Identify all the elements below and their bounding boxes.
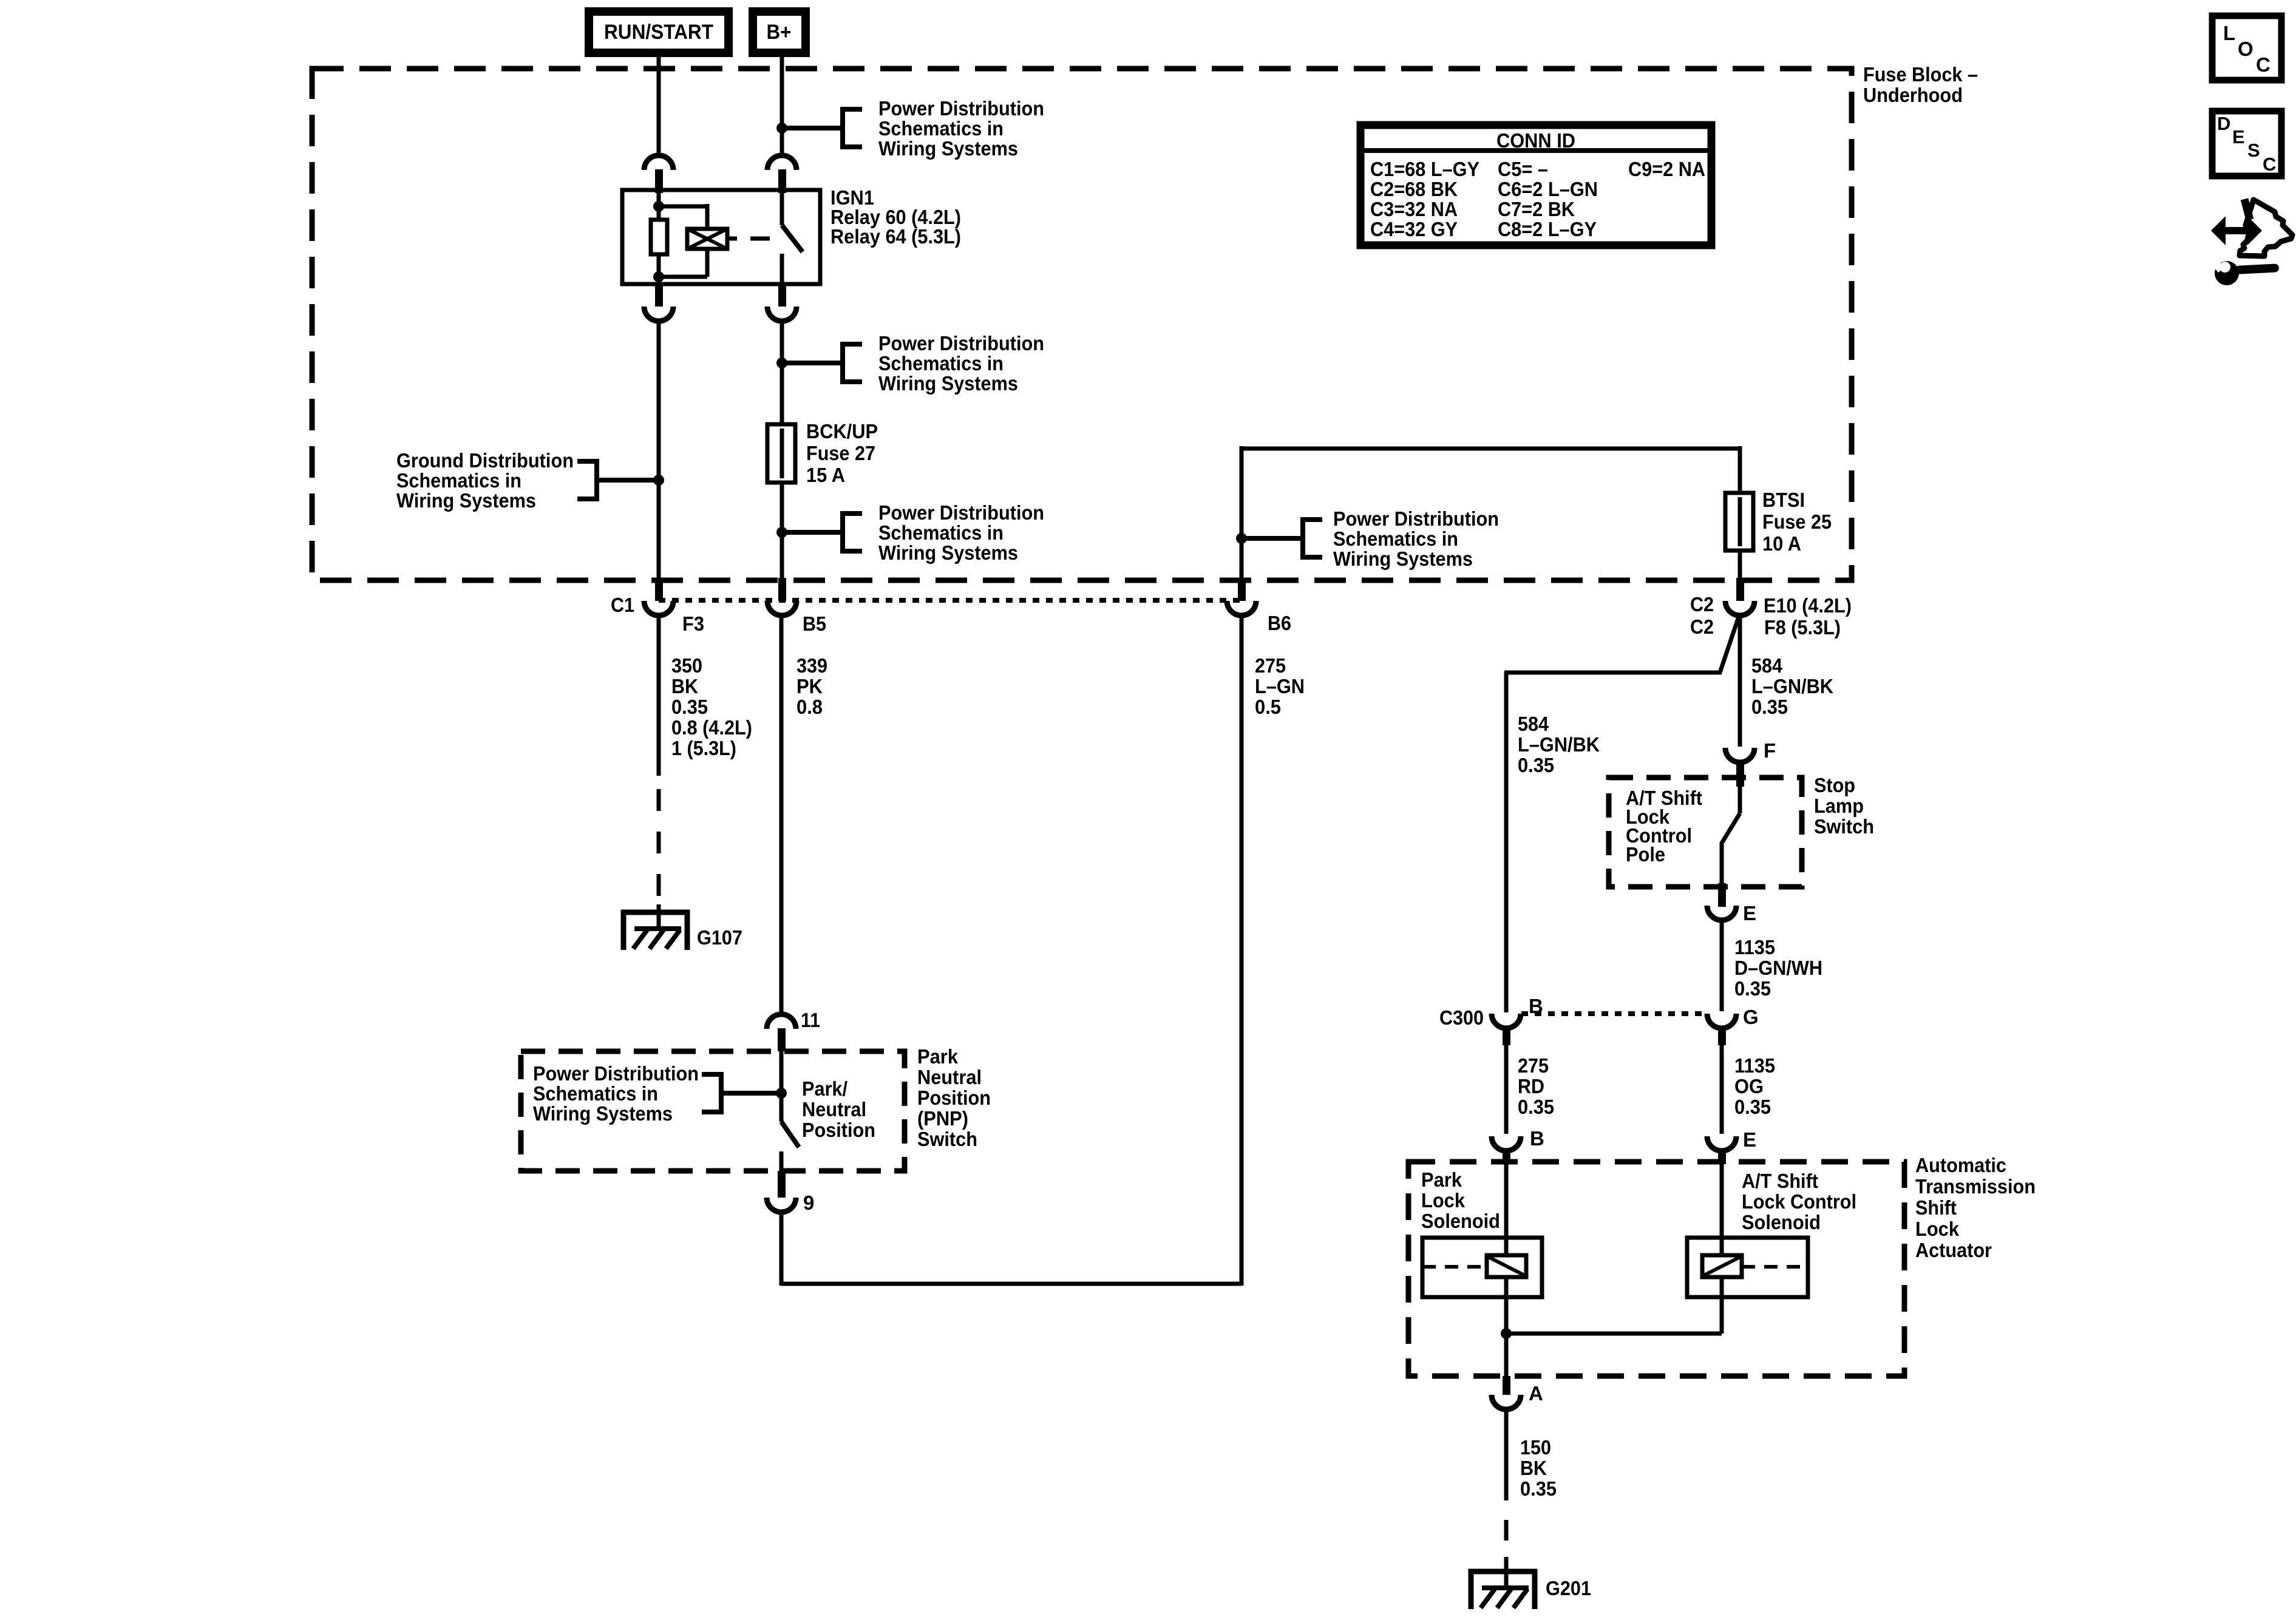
fuse BCK/UP Fuse 27 15A (767, 424, 795, 483)
svg-text:D–GN/WH: D–GN/WH (1734, 957, 1822, 979)
svg-text:B+: B+ (767, 21, 792, 44)
svg-text:G: G (1743, 1006, 1759, 1028)
svg-text:Fuse Block –: Fuse Block – (1863, 63, 1978, 86)
svg-text:C2=68 BK: C2=68 BK (1370, 178, 1458, 200)
junction ground distribution (653, 475, 664, 486)
svg-text:BK: BK (671, 675, 698, 697)
wire RUN/START to relay connector (657, 57, 661, 155)
svg-text:Schematics in: Schematics in (533, 1082, 658, 1105)
A/T solenoid dashed link (1742, 1265, 1808, 1269)
power feed box B+ (749, 7, 810, 57)
svg-text:C1: C1 (611, 594, 634, 616)
svg-text:Actuator: Actuator (1915, 1239, 1992, 1261)
connector out of relay (left) (655, 284, 663, 307)
connector B6 at fuse block (1238, 578, 1246, 601)
svg-text:L–GN/BK: L–GN/BK (1518, 733, 1600, 756)
label Power Distribution Schematics in Wiring Systems (B+ feed) (782, 126, 843, 131)
svg-text:275: 275 (1518, 1054, 1549, 1077)
wire B+ junction to relay connector (780, 128, 784, 155)
svg-text:C8=2 L–GY: C8=2 L–GY (1498, 218, 1597, 240)
icon hand with arrow and wrench (2240, 200, 2292, 256)
svg-text:S: S (2247, 140, 2260, 161)
svg-text:Schematics in: Schematics in (878, 521, 1004, 544)
svg-text:11: 11 (801, 1009, 820, 1031)
junction B6 power distribution (1236, 533, 1247, 544)
svg-text:Lamp: Lamp (1814, 795, 1864, 817)
wire 584 branch vertical to C300 (1504, 673, 1509, 1012)
svg-text:Lock: Lock (1915, 1218, 1960, 1240)
svg-text:Park: Park (1421, 1168, 1462, 1191)
svg-text:0.35: 0.35 (1518, 1096, 1554, 1118)
ground G107 (621, 910, 690, 915)
svg-text:F8 (5.3L): F8 (5.3L) (1764, 616, 1841, 639)
label Ground Distribution Schematics in Wiring Systems (597, 478, 659, 483)
wire fuse to lower junction (780, 483, 784, 532)
PNP switch arm (781, 1122, 799, 1147)
A/T shift lock control solenoid box (1687, 1238, 1808, 1297)
svg-text:F: F (1764, 739, 1776, 762)
svg-text:CONN ID: CONN ID (1496, 129, 1575, 152)
connector out of relay (right) (778, 284, 786, 307)
connector into relay (coil pin) (644, 155, 673, 170)
svg-text:G107: G107 (697, 926, 742, 949)
svg-text:Wiring Systems: Wiring Systems (878, 137, 1018, 160)
relay switch arm (782, 225, 803, 252)
wire B6 column vertical (275 L-GN) (1240, 615, 1244, 1286)
svg-text:Lock: Lock (1421, 1189, 1466, 1212)
svg-text:Power Distribution: Power Distribution (878, 97, 1044, 120)
connector C2 at fuse block (1736, 578, 1744, 601)
svg-text:C300: C300 (1439, 1006, 1484, 1029)
fuse BTSI Fuse 25 10A (1725, 493, 1753, 551)
park neutral position switch dashed box (521, 1051, 905, 1171)
icon LOC box (2212, 16, 2281, 80)
wire junction to fuse block boundary (B5) (780, 532, 784, 581)
PNP switch common wire (779, 1051, 784, 1122)
svg-text:C: C (2256, 53, 2271, 76)
svg-text:E10 (4.2L): E10 (4.2L) (1764, 594, 1852, 617)
wire pin 9 down (779, 1212, 784, 1286)
svg-text:E: E (1743, 902, 1756, 924)
wire park solenoid to junction (1504, 1276, 1509, 1334)
svg-text:Neutral: Neutral (917, 1066, 982, 1088)
svg-text:C1=68 L–GY: C1=68 L–GY (1370, 158, 1479, 180)
svg-text:Wiring Systems: Wiring Systems (396, 489, 536, 512)
svg-text:Automatic: Automatic (1915, 1154, 2006, 1176)
svg-text:0.8 (4.2L): 0.8 (4.2L) (671, 716, 752, 739)
svg-text:BCK/UP: BCK/UP (806, 420, 878, 442)
ground G201 (1469, 1569, 1537, 1575)
svg-text:Switch: Switch (917, 1128, 977, 1150)
svg-text:C7=2 BK: C7=2 BK (1498, 198, 1575, 220)
label Power Distribution Schematics in Wiring Systems (above fuse) (782, 361, 843, 365)
svg-text:584: 584 (1518, 713, 1549, 735)
svg-text:Power Distribution: Power Distribution (1333, 507, 1499, 530)
wire 150 BK (1504, 1409, 1509, 1500)
svg-text:RD: RD (1518, 1075, 1544, 1097)
park lock solenoid element (1487, 1255, 1526, 1277)
CONN ID table (1360, 125, 1711, 245)
svg-text:F3: F3 (682, 612, 704, 635)
svg-text:0.35: 0.35 (671, 696, 708, 718)
svg-text:584: 584 (1751, 654, 1783, 677)
svg-text:BK: BK (1520, 1457, 1547, 1479)
svg-text:C4=32 GY: C4=32 GY (1370, 218, 1458, 240)
junction B+ distribution (776, 123, 787, 134)
label Power Distribution Schematics in Wiring Systems (B6) (1241, 536, 1303, 541)
svg-text:L–GN: L–GN (1255, 675, 1305, 697)
label Power Distribution Schematics in Wiring Systems (PNP) (721, 1091, 781, 1096)
wire relay to power-distribution junction (780, 321, 784, 363)
svg-text:10 A: 10 A (1762, 532, 1801, 555)
svg-text:Lock Control: Lock Control (1742, 1190, 1856, 1213)
svg-text:C9=2 NA: C9=2 NA (1628, 158, 1705, 180)
svg-text:0.35: 0.35 (1518, 754, 1554, 776)
park lock solenoid dashed link (1422, 1265, 1487, 1269)
wire relay to ground-distribution junction (657, 321, 661, 480)
connector alignment dotted line C1-B6 (659, 598, 1241, 603)
svg-text:A/T Shift: A/T Shift (1742, 1170, 1818, 1192)
svg-text:C6=2 L–GN: C6=2 L–GN (1498, 178, 1598, 200)
svg-text:Schematics in: Schematics in (878, 352, 1004, 375)
svg-text:0.5: 0.5 (1255, 696, 1281, 718)
connector pin 11 into PNP switch (767, 1014, 796, 1029)
junction relay coil bottom (653, 271, 664, 282)
svg-text:O: O (2238, 38, 2254, 60)
svg-text:Wiring Systems: Wiring Systems (878, 372, 1018, 395)
wire 1135 OG (1720, 1045, 1724, 1134)
svg-text:Pole: Pole (1626, 843, 1665, 866)
svg-text:0.35: 0.35 (1751, 696, 1788, 718)
wire 275 RD (1504, 1045, 1509, 1134)
junction power distribution (below fuse) (776, 527, 787, 538)
svg-text:(PNP): (PNP) (917, 1107, 968, 1130)
svg-text:Park: Park (917, 1045, 959, 1068)
svg-text:1135: 1135 (1734, 1054, 1775, 1077)
svg-text:C3=32 NA: C3=32 NA (1370, 198, 1458, 220)
wire break to G201 (dashed) (1504, 1520, 1509, 1541)
svg-text:E: E (1743, 1128, 1756, 1151)
label Power Distribution Schematics in Wiring Systems (below fuse) (782, 530, 843, 535)
svg-text:C2: C2 (1690, 593, 1714, 615)
svg-text:Shift: Shift (1915, 1196, 1957, 1219)
wire 339 PK from B5 (779, 615, 784, 1014)
svg-text:A: A (1529, 1382, 1543, 1405)
svg-text:Solenoid: Solenoid (1421, 1210, 1500, 1232)
wire coil branch top (659, 205, 707, 209)
junction relay coil top (653, 201, 664, 212)
relay coil feed wire (657, 193, 661, 220)
svg-text:Position: Position (802, 1119, 875, 1141)
wire resistor to lower junction (657, 254, 661, 284)
svg-text:Power Distribution: Power Distribution (878, 501, 1044, 524)
svg-text:339: 339 (796, 654, 827, 677)
svg-text:BTSI: BTSI (1762, 489, 1805, 511)
svg-text:Neutral: Neutral (802, 1098, 866, 1120)
svg-text:OG: OG (1734, 1075, 1764, 1097)
svg-text:C: C (2263, 154, 2276, 175)
connector C1 at fuse block (655, 578, 663, 601)
relay IGN1 box (622, 190, 820, 284)
connector A out of actuator (1503, 1376, 1510, 1395)
wire coil branch bottom (705, 249, 710, 277)
wire A/T solenoid to junction (1720, 1276, 1724, 1334)
wire 1135 D-GN/WH (1720, 920, 1724, 1011)
svg-text:Schematics in: Schematics in (878, 117, 1004, 140)
wire junction to actuator boundary (1504, 1334, 1509, 1376)
connector F into stop lamp switch (1725, 748, 1754, 762)
wire BTSI fuse to boundary (1738, 551, 1742, 581)
wire B6 vertical drop (1240, 446, 1244, 538)
relay switch contact wire (780, 254, 784, 284)
svg-text:B6: B6 (1268, 612, 1291, 634)
svg-text:Wiring Systems: Wiring Systems (533, 1102, 673, 1125)
svg-text:D: D (2217, 113, 2230, 134)
svg-text:B: B (1530, 1127, 1544, 1150)
wire B6 junction to boundary (1240, 538, 1244, 581)
svg-text:L–GN/BK: L–GN/BK (1751, 675, 1833, 697)
svg-text:Switch: Switch (1814, 815, 1874, 838)
wire into park lock solenoid (1504, 1164, 1509, 1256)
stop lamp switch dashed box (1609, 778, 1802, 887)
stop lamp switch jog (1722, 813, 1740, 885)
wire horizontal link to B6 column (781, 1282, 1241, 1286)
connector alignment dotted line C300 (1521, 1011, 1706, 1016)
wire junction to fuse BCK/UP (780, 363, 784, 424)
svg-text:Transmission: Transmission (1915, 1175, 2036, 1198)
svg-text:C2: C2 (1690, 615, 1714, 638)
svg-text:B5: B5 (803, 612, 826, 635)
svg-text:RUN/START: RUN/START (604, 21, 713, 44)
svg-text:Solenoid: Solenoid (1742, 1211, 1821, 1233)
svg-text:G201: G201 (1546, 1577, 1591, 1599)
svg-text:C5= –: C5= – (1498, 158, 1548, 180)
svg-text:Schematics in: Schematics in (396, 469, 521, 492)
icon DESC box (2212, 111, 2281, 176)
svg-text:Wiring Systems: Wiring Systems (1333, 547, 1473, 570)
junction power distribution (above fuse) (776, 358, 787, 368)
connector pin 9 out of PNP switch (778, 1171, 786, 1198)
connector B at C300 (1492, 1014, 1521, 1028)
svg-text:9: 9 (803, 1192, 814, 1214)
junction solenoid common (1501, 1328, 1512, 1339)
svg-text:0.8: 0.8 (796, 696, 823, 718)
wire C2 diagonal branch (1504, 617, 1739, 673)
svg-text:0.35: 0.35 (1520, 1477, 1557, 1500)
svg-text:Ground Distribution: Ground Distribution (396, 449, 574, 472)
park lock solenoid box (1422, 1238, 1542, 1297)
svg-text:0.35: 0.35 (1734, 1096, 1771, 1118)
svg-text:L: L (2223, 22, 2235, 44)
PNP switch contact wire (779, 1151, 784, 1171)
relay switch common wire (780, 190, 784, 225)
relay coil element (687, 229, 727, 249)
connector E out of stop lamp switch (1718, 883, 1726, 907)
resistor (relay suppression) (651, 220, 667, 254)
svg-text:150: 150 (1520, 1436, 1551, 1459)
wire C2 to stop lamp switch (1738, 615, 1742, 747)
svg-text:Fuse 25: Fuse 25 (1762, 510, 1832, 533)
connector B into actuator (1492, 1136, 1521, 1151)
svg-text:0.35: 0.35 (1734, 977, 1771, 1000)
svg-text:Wiring Systems: Wiring Systems (878, 541, 1018, 564)
junction PNP switch common (776, 1088, 787, 1099)
wire BTSI drop (1738, 446, 1742, 493)
wire B6 feed horizontal (1241, 447, 1740, 451)
svg-text:PK: PK (796, 675, 823, 697)
A/T solenoid element (1702, 1255, 1742, 1277)
svg-text:275: 275 (1255, 654, 1286, 677)
stop lamp switch pole wire (1738, 787, 1742, 813)
svg-text:Schematics in: Schematics in (1333, 527, 1458, 550)
svg-text:1 (5.3L): 1 (5.3L) (671, 737, 736, 759)
svg-text:Stop: Stop (1814, 774, 1855, 796)
svg-text:350: 350 (671, 654, 702, 677)
svg-text:Fuse 27: Fuse 27 (806, 442, 875, 464)
connector into relay (switch pin) (767, 155, 796, 170)
connector E into actuator (1707, 1136, 1736, 1151)
wire into A/T shift lock solenoid (1720, 1164, 1724, 1256)
relay coil to switch dashed link (727, 237, 737, 241)
wire solenoid common link (1506, 1332, 1722, 1336)
wire break to G107 (dashed) (657, 789, 661, 811)
wire 350 BK from C1 (657, 615, 661, 776)
svg-text:Position: Position (917, 1086, 991, 1109)
automatic transmission shift lock actuator dashed box (1408, 1162, 1904, 1376)
wire B+ to relay connector (780, 57, 784, 128)
connector G at C300 (1707, 1014, 1736, 1028)
svg-text:Park/: Park/ (802, 1077, 847, 1100)
svg-text:15 A: 15 A (806, 464, 845, 486)
svg-text:1135: 1135 (1734, 936, 1775, 958)
wire junction to fuse block boundary (left) (657, 480, 661, 581)
svg-text:Power Distribution: Power Distribution (533, 1062, 699, 1085)
power feed box RUN/START (585, 7, 733, 57)
svg-text:Underhood: Underhood (1863, 84, 1963, 106)
connector B5 at fuse block (778, 578, 786, 601)
svg-text:Power Distribution: Power Distribution (878, 332, 1044, 354)
svg-text:Relay 64 (5.3L): Relay 64 (5.3L) (830, 225, 961, 248)
svg-text:E: E (2232, 126, 2245, 147)
fuse block underhood dashed boundary (312, 69, 1852, 580)
